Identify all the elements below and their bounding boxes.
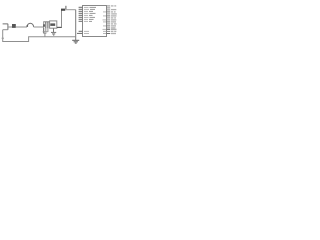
node C [2, 37, 4, 39]
wire [61, 10, 63, 27]
left pins group 2 [77, 31, 83, 33]
wire [44, 22, 50, 27]
right pins [107, 6, 111, 34]
node A [26, 25, 28, 27]
connector J1 (AC plug) [3, 24, 8, 30]
wire [34, 26, 44, 28]
diode D1 [61, 9, 65, 11]
fuse F1 [12, 24, 16, 28]
wire [57, 26, 62, 28]
wire [65, 9, 75, 11]
right net labels outside [111, 6, 117, 34]
wire [16, 26, 27, 28]
left pin labels [84, 7, 96, 33]
wire [8, 26, 12, 28]
capacitor C3 [51, 28, 56, 35]
left pins group 1 [79, 7, 83, 21]
wire [75, 10, 77, 41]
wire [65, 6, 67, 9]
IC U1 [83, 6, 107, 37]
right pin labels inside [103, 12, 107, 34]
ground [72, 40, 79, 43]
regulator U2 [50, 21, 57, 28]
capacitor C1 [46, 22, 48, 29]
inductor L1 [27, 23, 34, 27]
wire (return from plug) [3, 30, 76, 42]
node B [43, 24, 45, 26]
capacitor C2 [43, 28, 48, 37]
wire [47, 28, 49, 32]
